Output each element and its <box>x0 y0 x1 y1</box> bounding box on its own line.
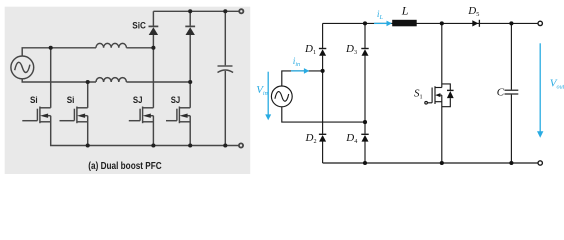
wire top rail <box>323 22 538 24</box>
inductor L1 <box>96 43 126 47</box>
svg-text:SJ: SJ <box>171 95 181 105</box>
ac source V1 <box>11 56 34 79</box>
svg-text:SJ: SJ <box>133 95 143 105</box>
wire bottom rail <box>51 116 239 146</box>
svg-text:S1: S1 <box>414 88 423 101</box>
wire M4 drain <box>189 82 191 108</box>
node C top <box>509 21 513 25</box>
diode D-SiC-2 <box>185 11 195 82</box>
node D4 bottom rail <box>363 161 367 165</box>
terminal output top <box>538 21 542 25</box>
transistor M3 (SJ) <box>129 107 154 146</box>
svg-text:D2: D2 <box>305 132 317 145</box>
voltage arrow Vout <box>537 43 543 138</box>
node ac top / D1 <box>321 69 325 73</box>
capacitor C1 <box>218 11 234 145</box>
terminal top right <box>239 9 243 13</box>
diode D-SiC-1 <box>149 11 159 48</box>
wire M2 drain <box>87 82 89 108</box>
left panel background <box>5 7 251 174</box>
diode D4 <box>361 122 368 163</box>
node S1 bottom rail <box>440 161 444 165</box>
svg-text:iin: iin <box>293 57 300 68</box>
wire ac bottom lead <box>22 79 96 82</box>
diode D1 <box>319 23 326 71</box>
node line2-left <box>86 80 90 84</box>
node bottom M3 <box>151 143 155 147</box>
transistor M1 (Si) <box>22 107 50 124</box>
current arrow iL <box>374 21 392 27</box>
node bottom cap <box>223 143 227 147</box>
wire top rail <box>153 10 239 12</box>
wire second line right <box>126 81 190 83</box>
wire M3 drain <box>152 48 154 108</box>
ac source Vin <box>271 86 292 107</box>
svg-text:L: L <box>401 3 409 17</box>
wire ac bottom lead <box>282 107 365 122</box>
terminal bottom right <box>239 143 243 147</box>
node D3 top <box>363 21 367 25</box>
wire ac top lead <box>282 71 323 86</box>
svg-text:D4: D4 <box>345 132 357 145</box>
junction dots left circuit <box>49 9 228 147</box>
inductor L (solid bar) <box>392 20 417 27</box>
voltage arrow Vin <box>265 72 271 121</box>
wire ac top lead <box>22 48 96 56</box>
node B diode2 <box>188 80 192 84</box>
svg-text:D3: D3 <box>345 43 357 56</box>
node S1 top <box>440 21 444 25</box>
svg-text:(a) Dual boost PFC: (a) Dual boost PFC <box>88 161 161 172</box>
capacitor C <box>505 23 519 163</box>
node bottom M4 <box>188 143 192 147</box>
node C bottom rail <box>509 161 513 165</box>
svg-text:D5: D5 <box>467 5 479 18</box>
node bottom M2 <box>86 143 90 147</box>
inductor L2 <box>96 78 126 82</box>
transistor S1 <box>425 23 454 163</box>
wire top line right <box>126 47 153 49</box>
diode D2 <box>319 71 326 163</box>
wire bottom rail <box>323 162 538 164</box>
junction dots right circuit <box>321 21 514 165</box>
node A diode1 <box>151 46 155 50</box>
body diode of S1 <box>442 84 451 90</box>
svg-text:Vin: Vin <box>256 84 268 97</box>
node top-left <box>49 46 53 50</box>
node rail cap top <box>223 9 227 13</box>
node ac bottom / D4 <box>363 120 367 124</box>
svg-text:Si: Si <box>67 95 75 105</box>
svg-text:iL: iL <box>377 10 384 21</box>
diode D3 <box>361 23 368 122</box>
svg-text:C: C <box>497 86 505 98</box>
svg-text:Si: Si <box>30 95 38 105</box>
svg-text:Vout: Vout <box>550 78 564 91</box>
current arrow iin <box>291 68 309 74</box>
diode D5 <box>472 20 479 27</box>
wire M1 drain <box>50 48 52 108</box>
transistor M2 (Si) <box>60 107 88 146</box>
svg-text:SiC: SiC <box>132 20 146 31</box>
transistor M4 (SJ) <box>166 107 190 146</box>
node rail diode2 <box>188 9 192 13</box>
svg-text:D1: D1 <box>304 43 316 56</box>
terminal output bottom <box>538 161 542 165</box>
